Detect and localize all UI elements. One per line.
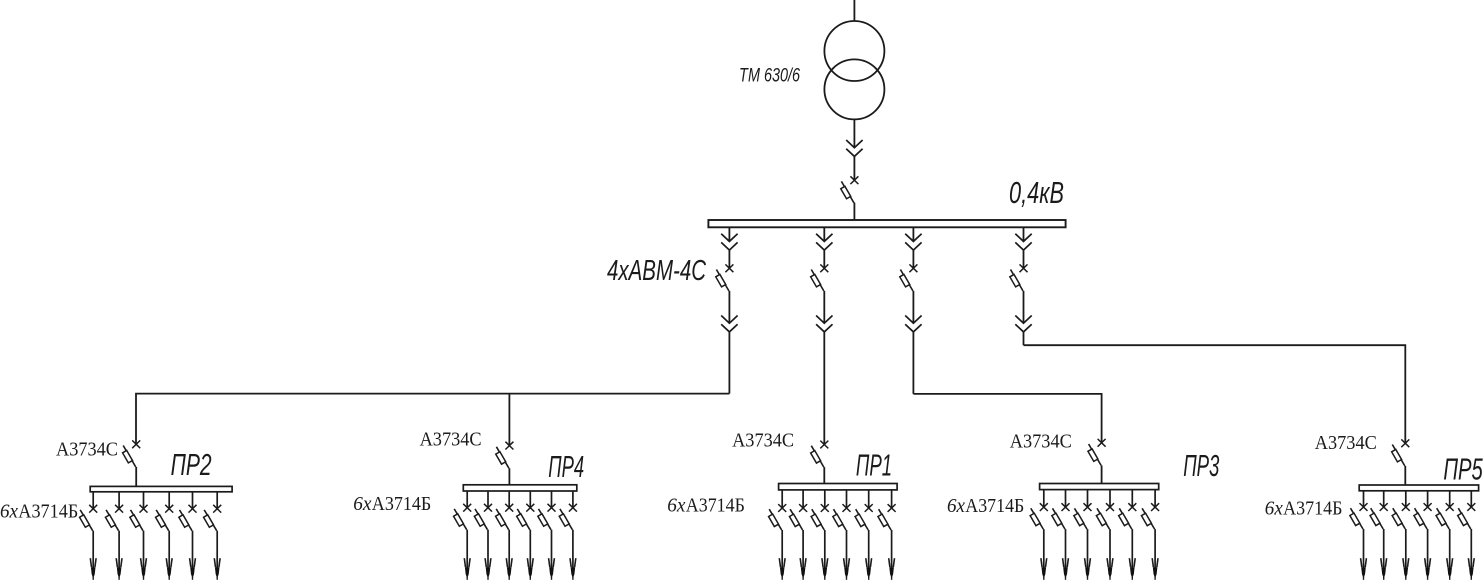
wire: PR4 branch 6 drop xyxy=(572,530,574,568)
wire: PR5 branch 6 tap xyxy=(1470,491,1472,507)
wire: PR3 branch 6 tap xyxy=(1154,490,1156,508)
load arrow PR5 branch 1 xyxy=(1361,558,1367,580)
withdrawable contact chevrons feeder 4 (lower) xyxy=(1015,316,1031,332)
load arrow PR2 branch 2 xyxy=(116,558,122,580)
wire xyxy=(823,250,825,268)
load arrow PR2 branch 3 xyxy=(141,558,147,580)
wire: PR4 branch 2 drop xyxy=(487,530,489,568)
wire: PR1 branch 3 tap xyxy=(824,490,826,508)
load arrow PR1 branch 2 xyxy=(800,558,806,580)
wire: feeder 4 drop to junction xyxy=(1023,332,1025,345)
wire: feeder 4 tap from busbar xyxy=(1023,227,1025,241)
wire: feeder 1 drop to junction xyxy=(728,332,730,394)
withdrawable contact chevrons feeder 3 (upper) xyxy=(905,234,921,250)
wire: PR4 branch 5 drop xyxy=(551,530,553,568)
busbar panel PR3 xyxy=(1040,484,1159,490)
load arrow PR3 branch 2 xyxy=(1063,558,1069,580)
svg-text:А3734С: А3734С xyxy=(420,429,482,451)
wire: PR1 branch 4 tap xyxy=(846,490,848,508)
svg-text:А3734С: А3734С xyxy=(56,438,118,460)
circuit breaker A3714B PR3 branch 1 xyxy=(1030,503,1048,529)
svg-text:6х: 6х xyxy=(353,493,371,515)
wire: feeder 1 tap from busbar xyxy=(728,227,730,241)
circuit breaker A3714B PR4 branch 3 xyxy=(496,504,514,530)
circuit breaker A3714B PR2 branch 2 xyxy=(105,505,123,531)
wire: PR3 branch 6 drop xyxy=(1154,529,1156,568)
wire xyxy=(912,250,914,268)
wire: PR1 branch 1 drop xyxy=(781,530,783,568)
wire to PR4 busbar xyxy=(508,468,510,485)
circuit breaker A3734C (PR4 input) xyxy=(496,442,514,469)
wire: PR4 branch 1 tap xyxy=(466,491,468,508)
circuit breaker QF (transformer input) xyxy=(841,176,859,203)
wire to PR2 busbar xyxy=(135,467,137,487)
circuit breaker A3714B PR2 branch 1 xyxy=(80,505,98,531)
circuit breaker A3714B PR1 branch 5 xyxy=(855,504,873,530)
circuit breaker A3734C (PR3 input) xyxy=(1088,439,1106,466)
wire xyxy=(728,291,730,323)
wire: PR4 branch 2 tap xyxy=(487,491,489,508)
wire: horizontal run to PR2 / PR4 xyxy=(136,394,729,445)
svg-text:А3734С: А3734С xyxy=(1010,430,1072,452)
circuit breaker A3734C (PR2 input) xyxy=(123,440,141,467)
wire to PR5 busbar xyxy=(1404,466,1406,485)
wire: PR5 branch 6 drop xyxy=(1470,529,1472,568)
load arrow PR1 branch 3 xyxy=(822,558,828,580)
svg-text:ПР1: ПР1 xyxy=(856,447,892,482)
wire xyxy=(912,291,914,323)
wire: PR2 branch 6 drop xyxy=(216,531,218,568)
wire: PR5 branch 1 drop xyxy=(1363,529,1365,568)
wire: PR5 branch 4 tap xyxy=(1427,491,1429,507)
label 6xA3714B (PR3) xyxy=(947,495,1024,517)
wire: PR5 branch 5 tap xyxy=(1449,491,1451,507)
wire: feeder 2 tap from busbar xyxy=(823,227,825,241)
wire: PR2 branch 4 tap xyxy=(168,492,170,509)
wire: PR4 branch 3 tap xyxy=(508,491,510,508)
label 6xA3714B (PR4) xyxy=(353,493,431,515)
label 6xA3714B (PR1) xyxy=(667,495,745,517)
withdrawable contact chevrons (transformer output) xyxy=(846,140,862,156)
circuit breaker ABM-4C feeder 4 xyxy=(1010,264,1028,291)
wire: PR1 branch 5 drop xyxy=(868,530,870,568)
withdrawable contact chevrons feeder 3 (lower) xyxy=(905,316,921,332)
load arrow PR2 branch 1 xyxy=(90,558,96,580)
load arrow PR5 branch 3 xyxy=(1403,558,1409,580)
wire: PR3 branch 4 drop xyxy=(1109,529,1111,568)
svg-text:А3714Б: А3714Б xyxy=(1283,497,1342,519)
load arrow PR4 branch 1 xyxy=(464,558,470,580)
wire: PR5 branch 2 drop xyxy=(1383,529,1385,568)
wire: PR4 branch 3 drop xyxy=(508,530,510,568)
svg-text:ПР5: ПР5 xyxy=(1443,452,1483,487)
load arrow PR1 branch 1 xyxy=(779,558,785,580)
busbar panel PR4 xyxy=(463,485,577,491)
wire: PR3 branch 3 drop xyxy=(1087,529,1089,568)
svg-text:ПР2: ПР2 xyxy=(171,447,212,482)
circuit breaker A3714B PR1 branch 3 xyxy=(811,504,829,530)
wire: PR1 branch 4 drop xyxy=(846,530,848,568)
circuit breaker ABM-4C feeder 3 xyxy=(900,264,918,291)
svg-text:А3714Б: А3714Б xyxy=(372,493,432,515)
label 6xA3714B (PR2) xyxy=(0,500,78,522)
svg-text:6х: 6х xyxy=(947,495,965,517)
wire xyxy=(1023,250,1025,268)
wire: PR1 branch 2 tap xyxy=(802,490,804,508)
circuit breaker A3714B PR4 branch 5 xyxy=(538,504,556,530)
circuit breaker A3714B PR1 branch 6 xyxy=(878,504,896,530)
circuit breaker A3714B PR2 branch 5 xyxy=(179,505,197,531)
wire: PR2 branch 5 tap xyxy=(192,492,194,509)
circuit breaker A3714B PR1 branch 2 xyxy=(789,504,807,530)
wire: PR4 branch 1 drop xyxy=(466,530,468,568)
wire: transformer LV lead xyxy=(853,119,855,147)
circuit breaker A3714B PR3 branch 5 xyxy=(1119,503,1137,529)
circuit breaker A3714B PR3 branch 3 xyxy=(1074,503,1092,529)
wire: feeder 2 drop to PR1 xyxy=(823,332,825,445)
load arrow PR5 branch 6 xyxy=(1468,558,1474,580)
wire: feeder 3 tap from busbar xyxy=(912,227,914,241)
withdrawable contact chevrons feeder 1 (lower) xyxy=(721,316,737,332)
circuit breaker A3714B PR2 branch 3 xyxy=(130,505,148,531)
wire: PR2 branch 2 drop xyxy=(118,531,120,568)
wire: PR3 branch 5 drop xyxy=(1131,529,1133,568)
svg-text:А3714Б: А3714Б xyxy=(686,495,745,517)
circuit breaker A3714B PR5 branch 3 xyxy=(1392,503,1410,529)
svg-text:А3714Б: А3714Б xyxy=(965,495,1024,517)
wire: PR1 branch 2 drop xyxy=(802,530,804,568)
load arrow PR4 branch 3 xyxy=(506,558,512,580)
withdrawable contact chevrons feeder 2 (lower) xyxy=(816,316,832,332)
circuit breaker A3714B PR5 branch 2 xyxy=(1370,503,1388,529)
svg-text:ПР3: ПР3 xyxy=(1183,448,1219,483)
load arrow PR3 branch 6 xyxy=(1152,558,1158,580)
busbar 0.4kV xyxy=(708,220,1065,227)
svg-text:ТМ 630/6: ТМ 630/6 xyxy=(739,66,800,87)
wire: HV supply lead xyxy=(853,0,855,21)
svg-text:А3734С: А3734С xyxy=(1315,432,1377,454)
circuit breaker A3714B PR3 branch 6 xyxy=(1141,503,1159,529)
circuit breaker A3714B PR3 branch 4 xyxy=(1096,503,1114,529)
circuit breaker ABM-4C feeder 2 xyxy=(811,264,829,291)
wire: PR1 branch 6 tap xyxy=(891,490,893,508)
wire: PR1 branch 1 tap xyxy=(781,490,783,508)
wire: PR3 branch 2 tap xyxy=(1065,490,1067,508)
wire: PR2 branch 1 drop xyxy=(92,531,94,568)
load arrow PR3 branch 1 xyxy=(1041,558,1047,580)
wire: PR5 branch 1 tap xyxy=(1363,491,1365,507)
svg-text:6х: 6х xyxy=(0,500,18,522)
busbar panel PR2 xyxy=(90,486,232,491)
circuit breaker A3714B PR3 branch 2 xyxy=(1052,503,1070,529)
wire xyxy=(853,156,855,180)
circuit breaker A3714B PR4 branch 1 xyxy=(454,504,472,530)
wire: PR4 branch 6 tap xyxy=(572,491,574,508)
wire: PR3 branch 1 tap xyxy=(1043,490,1045,508)
svg-text:0,4кВ: 0,4кВ xyxy=(1009,175,1064,210)
circuit breaker A3734C (PR5 input) xyxy=(1392,439,1410,466)
load arrow PR4 branch 2 xyxy=(485,558,491,580)
load arrow PR1 branch 4 xyxy=(844,558,850,580)
circuit breaker A3714B PR2 branch 4 xyxy=(156,505,174,531)
svg-text:А3734С: А3734С xyxy=(732,429,794,451)
busbar panel PR5 xyxy=(1359,485,1478,491)
svg-text:6х: 6х xyxy=(667,495,685,517)
wire: PR3 branch 2 drop xyxy=(1065,529,1067,568)
wire xyxy=(1023,291,1025,323)
circuit breaker A3714B PR2 branch 6 xyxy=(204,505,222,531)
load arrow PR2 branch 5 xyxy=(190,558,196,580)
wire: PR2 branch 2 tap xyxy=(118,492,120,509)
circuit breaker A3714B PR5 branch 1 xyxy=(1350,503,1368,529)
wire: PR5 branch 3 drop xyxy=(1405,529,1407,568)
wire xyxy=(728,250,730,268)
withdrawable contact chevrons feeder 1 (upper) xyxy=(721,234,737,250)
wire: PR4 branch 5 tap xyxy=(551,491,553,508)
wire: PR2 branch 5 drop xyxy=(192,531,194,568)
circuit breaker A3714B PR1 branch 1 xyxy=(769,504,787,530)
wire: PR4 branch 4 tap xyxy=(529,491,531,508)
withdrawable contact chevrons feeder 2 (upper) xyxy=(816,234,832,250)
withdrawable contact chevrons feeder 4 (upper) xyxy=(1015,234,1031,250)
circuit breaker A3714B PR4 branch 2 xyxy=(474,504,492,530)
busbar panel PR1 xyxy=(779,484,898,490)
wire: branch drop to PR4 xyxy=(508,394,510,446)
circuit breaker A3714B PR4 branch 6 xyxy=(559,504,577,530)
wire: PR2 branch 3 tap xyxy=(143,492,145,509)
wire: PR5 branch 2 tap xyxy=(1383,491,1385,507)
load arrow PR3 branch 5 xyxy=(1129,558,1135,580)
wire: PR1 branch 3 drop xyxy=(824,530,826,568)
wire: PR2 branch 4 drop xyxy=(168,531,170,568)
svg-text:6х: 6х xyxy=(1265,497,1283,519)
wire: PR1 branch 5 tap xyxy=(868,490,870,508)
wire: PR2 branch 3 drop xyxy=(143,531,145,568)
svg-text:4хАВМ-4С: 4хАВМ-4С xyxy=(607,255,707,287)
wire: PR5 branch 5 drop xyxy=(1449,529,1451,568)
load arrow PR4 branch 5 xyxy=(549,558,555,580)
wire: feeder 3 drop to junction xyxy=(912,332,914,394)
load arrow PR5 branch 5 xyxy=(1447,558,1453,580)
transformer T1 TM 630/6 (two-winding) xyxy=(824,21,884,119)
wire: PR2 branch 1 tap xyxy=(92,492,94,509)
wire: PR3 branch 3 tap xyxy=(1087,490,1089,508)
wire: PR3 branch 1 drop xyxy=(1043,529,1045,568)
wire to busbar xyxy=(853,203,855,220)
load arrow PR4 branch 4 xyxy=(527,558,533,580)
label 6xA3714B (PR5) xyxy=(1265,497,1343,519)
load arrow PR5 branch 4 xyxy=(1425,558,1431,580)
svg-text:А3714Б: А3714Б xyxy=(18,500,78,522)
circuit breaker A3714B PR5 branch 6 xyxy=(1458,503,1476,529)
load arrow PR2 branch 6 xyxy=(214,558,220,580)
load arrow PR3 branch 3 xyxy=(1085,558,1091,580)
wire to PR1 busbar xyxy=(823,467,825,483)
circuit breaker A3714B PR1 branch 4 xyxy=(833,504,851,530)
wire: PR1 branch 6 drop xyxy=(891,530,893,568)
svg-text:ПР4: ПР4 xyxy=(548,449,584,484)
load arrow PR1 branch 5 xyxy=(866,558,872,580)
load arrow PR4 branch 6 xyxy=(570,558,576,580)
wire to PR3 busbar xyxy=(1101,465,1103,483)
wire: horizontal run to PR3 xyxy=(913,394,1101,443)
circuit breaker A3734C (PR1 input) xyxy=(811,441,829,468)
load arrow PR5 branch 2 xyxy=(1381,558,1387,580)
wire: PR3 branch 4 tap xyxy=(1109,490,1111,508)
circuit breaker A3714B PR4 branch 4 xyxy=(517,504,535,530)
wire: PR5 branch 4 drop xyxy=(1427,529,1429,568)
circuit breaker A3714B PR5 branch 5 xyxy=(1436,503,1454,529)
load arrow PR2 branch 4 xyxy=(166,558,172,580)
wire: PR5 branch 3 tap xyxy=(1405,491,1407,507)
load arrow PR1 branch 6 xyxy=(889,558,895,580)
load arrow PR3 branch 4 xyxy=(1107,558,1113,580)
wire: horizontal run to PR5 xyxy=(1024,345,1406,443)
circuit breaker A3714B PR5 branch 4 xyxy=(1414,503,1432,529)
wire: PR2 branch 6 tap xyxy=(216,492,218,509)
wire: PR4 branch 4 drop xyxy=(529,530,531,568)
circuit breaker ABM-4C feeder 1 xyxy=(716,264,734,291)
wire xyxy=(823,291,825,323)
wire: PR3 branch 5 tap xyxy=(1131,490,1133,508)
